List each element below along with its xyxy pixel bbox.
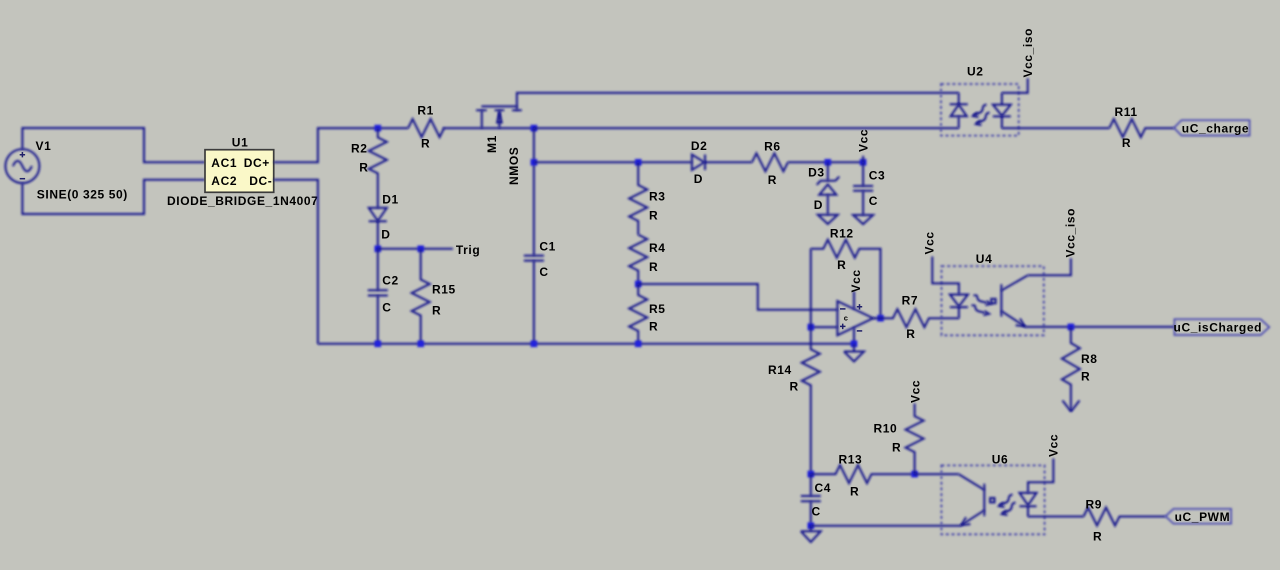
node opamp ground on rail	[851, 341, 858, 348]
svg-text:NMOS: NMOS	[507, 147, 521, 185]
node Trig/R15	[417, 246, 424, 253]
wire node to U6 collector	[915, 473, 959, 475]
svg-text:AC1: AC1	[211, 156, 237, 170]
svg-text:AC2: AC2	[211, 174, 237, 188]
node R15 bottom rail	[417, 341, 424, 348]
svg-text:uC_isCharged: uC_isCharged	[1174, 321, 1263, 335]
Vcc flag at C3	[857, 129, 871, 162]
U6 LED	[1020, 493, 1037, 505]
node op-amp output	[877, 315, 884, 322]
resistor R7	[873, 294, 959, 342]
resistor R5	[629, 284, 665, 344]
svg-text:R: R	[850, 485, 859, 499]
node plus input / R12 / R14	[808, 324, 815, 331]
resistor R13	[811, 453, 915, 499]
svg-text:c: c	[844, 314, 848, 323]
svg-text:R9: R9	[1086, 498, 1103, 512]
svg-text:R: R	[768, 173, 777, 187]
bottom rail wire	[318, 343, 854, 345]
svg-text:R14: R14	[768, 363, 792, 377]
ground under C4	[801, 526, 821, 542]
svg-text:R12: R12	[830, 227, 854, 241]
svg-text:D2: D2	[691, 139, 708, 153]
U4 Vcc wire	[932, 257, 959, 295]
wire U4 emitter to output	[1026, 326, 1175, 328]
svg-text:R: R	[837, 258, 846, 272]
U6 phototransistor	[959, 474, 985, 490]
svg-text:D: D	[381, 228, 390, 242]
svg-text:Vcc_iso: Vcc_iso	[1064, 208, 1078, 258]
node M1 source junction	[531, 125, 538, 132]
diode D1	[369, 193, 399, 249]
svg-text:D1: D1	[382, 193, 399, 207]
svg-text:C1: C1	[539, 240, 556, 254]
wire R1 to M1 gate/source	[443, 127, 534, 129]
svg-text:R: R	[1081, 370, 1090, 384]
resistor R9	[1084, 498, 1166, 544]
resistor R11	[1109, 105, 1174, 150]
node C4/R13 junction	[808, 471, 815, 478]
svg-text:R: R	[1093, 530, 1102, 544]
op-amp comparator	[837, 269, 873, 343]
svg-text:R8: R8	[1081, 352, 1098, 366]
node C4 bottom	[808, 522, 815, 529]
svg-text:R: R	[421, 137, 430, 151]
svg-text:Vcc: Vcc	[1047, 434, 1061, 457]
svg-text:U2: U2	[967, 65, 984, 79]
capacitor C3	[853, 162, 885, 215]
svg-text:Vcc_iso: Vcc_iso	[1021, 28, 1035, 78]
U2 coupling arrows	[974, 105, 987, 116]
capacitor C2	[368, 249, 399, 344]
svg-text:C2: C2	[382, 274, 399, 288]
wire node to U2 LED bottom	[534, 127, 959, 129]
svg-text:C: C	[539, 265, 548, 279]
wire R12 left vertical	[810, 249, 812, 327]
U2 photodiode	[993, 93, 1011, 116]
svg-text:R2: R2	[351, 142, 368, 156]
ground under C3	[853, 215, 873, 224]
svg-text:R1: R1	[417, 104, 434, 118]
svg-text:SINE(0 325 50): SINE(0 325 50)	[37, 188, 128, 202]
svg-text:R: R	[359, 161, 368, 175]
capacitor C1	[524, 240, 556, 344]
wire DC- down to bottom rail	[274, 180, 318, 344]
svg-text:R11: R11	[1115, 105, 1138, 119]
svg-text:uC_PWM: uC_PWM	[1175, 510, 1231, 524]
svg-text:Vcc: Vcc	[923, 231, 937, 254]
svg-text:D: D	[694, 172, 703, 186]
node C2 bottom rail	[375, 341, 382, 348]
node Vcc/C3	[860, 159, 867, 166]
U4 coupling arrows	[974, 295, 987, 303]
port flag uC_charge	[1174, 120, 1250, 135]
svg-text:DIODE_BRIDGE_1N4007: DIODE_BRIDGE_1N4007	[167, 194, 318, 208]
wire DC+ up to top rail and to R1	[274, 128, 408, 162]
node R13/R10 junction	[911, 471, 918, 478]
svg-text:R: R	[649, 209, 658, 223]
svg-text:U1: U1	[232, 135, 249, 149]
svg-text:U6: U6	[992, 453, 1009, 467]
svg-text:Vcc: Vcc	[849, 269, 863, 292]
svg-text:C4: C4	[815, 481, 832, 495]
svg-text:R: R	[1122, 136, 1131, 150]
nmos M1	[476, 106, 522, 185]
resistor R2	[351, 128, 387, 208]
svg-text:C: C	[382, 301, 391, 315]
ground under D3	[818, 215, 838, 224]
wire U2 out to R11	[1002, 127, 1109, 129]
wire U6 LED to R9	[1028, 516, 1084, 518]
optocoupler U2	[941, 65, 1019, 136]
wire C4 bottom to U6 emitter	[811, 525, 961, 527]
Vcc_iso flag U2	[1002, 28, 1035, 93]
svg-text:R15: R15	[432, 283, 456, 297]
svg-text:DC-: DC-	[249, 174, 272, 188]
svg-text:R13: R13	[839, 453, 863, 467]
wire M1 drain to top rail toward U2	[517, 93, 959, 110]
optocoupler U6	[941, 453, 1053, 535]
resistor R14	[768, 327, 820, 474]
resistor R3	[629, 162, 665, 234]
svg-text:R: R	[892, 441, 901, 455]
U4 LED	[950, 295, 968, 307]
wire to Trig	[378, 248, 453, 250]
arrow ground under R8	[1063, 401, 1080, 412]
resistor R15	[412, 249, 456, 344]
node R5 bottom rail	[635, 341, 642, 348]
svg-text:R6: R6	[764, 140, 781, 154]
svg-text:uC_charge: uC_charge	[1182, 122, 1249, 136]
wire V1 bottom to U1 AC2	[22, 180, 205, 214]
wire node down through C1 node	[533, 128, 535, 256]
svg-text:DC+: DC+	[244, 156, 270, 170]
diode D2	[691, 139, 752, 186]
resistor R4	[629, 235, 665, 284]
U2 LED	[950, 93, 968, 104]
node C1 top tap	[531, 159, 538, 166]
svg-text:R5: R5	[649, 302, 666, 316]
resistor R8	[1062, 327, 1098, 411]
svg-text:R: R	[906, 327, 915, 341]
svg-text:R3: R3	[649, 190, 666, 204]
node D3 tap	[825, 159, 832, 166]
svg-text:C3: C3	[869, 169, 886, 183]
svg-text:Vcc: Vcc	[857, 129, 871, 152]
svg-text:Vcc: Vcc	[909, 380, 923, 403]
U6 coupling arrows	[1000, 495, 1013, 506]
resistor R10	[874, 404, 924, 475]
svg-text:R: R	[432, 304, 441, 318]
wire R6 to Vcc node	[788, 161, 863, 163]
resistor R6	[752, 140, 788, 188]
svg-text:Trig: Trig	[456, 243, 480, 257]
resistor R1	[408, 104, 444, 151]
node C1 bottom rail	[531, 341, 538, 348]
svg-text:U4: U4	[976, 252, 993, 266]
svg-text:C: C	[812, 505, 821, 519]
wire V1 top to U1 AC1	[22, 128, 205, 162]
svg-text:C: C	[869, 194, 878, 208]
node top-left junction	[375, 125, 382, 132]
svg-text:R7: R7	[902, 294, 919, 308]
Vcc_iso flag U4	[1028, 208, 1078, 275]
voltage source V1	[5, 139, 128, 202]
port flag uC_isCharged	[1174, 319, 1270, 335]
node D1/C2/Trig	[375, 246, 382, 253]
node divider top	[635, 159, 642, 166]
ground under op-amp	[844, 344, 864, 362]
svg-text:D: D	[814, 198, 823, 212]
node R8 tap	[1068, 324, 1075, 331]
svg-text:R: R	[649, 320, 658, 334]
svg-text:D3: D3	[808, 166, 825, 180]
resistor R12	[811, 227, 881, 319]
svg-text:R10: R10	[874, 422, 898, 436]
port flag uC_PWM	[1166, 509, 1232, 524]
capacitor C4	[801, 474, 831, 526]
svg-text:R4: R4	[649, 241, 666, 255]
svg-text:R: R	[790, 380, 799, 394]
node R4/R5 junction	[635, 281, 642, 288]
optocoupler U4	[932, 252, 1044, 335]
wire tap to divider	[534, 161, 692, 163]
svg-text:V1: V1	[36, 139, 52, 153]
svg-text:M1: M1	[485, 135, 499, 153]
wire divider tap to comparator minus input	[638, 284, 837, 310]
svg-text:R: R	[649, 260, 658, 274]
diode bridge U1	[167, 135, 318, 208]
zener diode D3	[808, 162, 840, 214]
U4 phototransistor	[1000, 284, 1002, 316]
wire plus input	[811, 326, 838, 328]
